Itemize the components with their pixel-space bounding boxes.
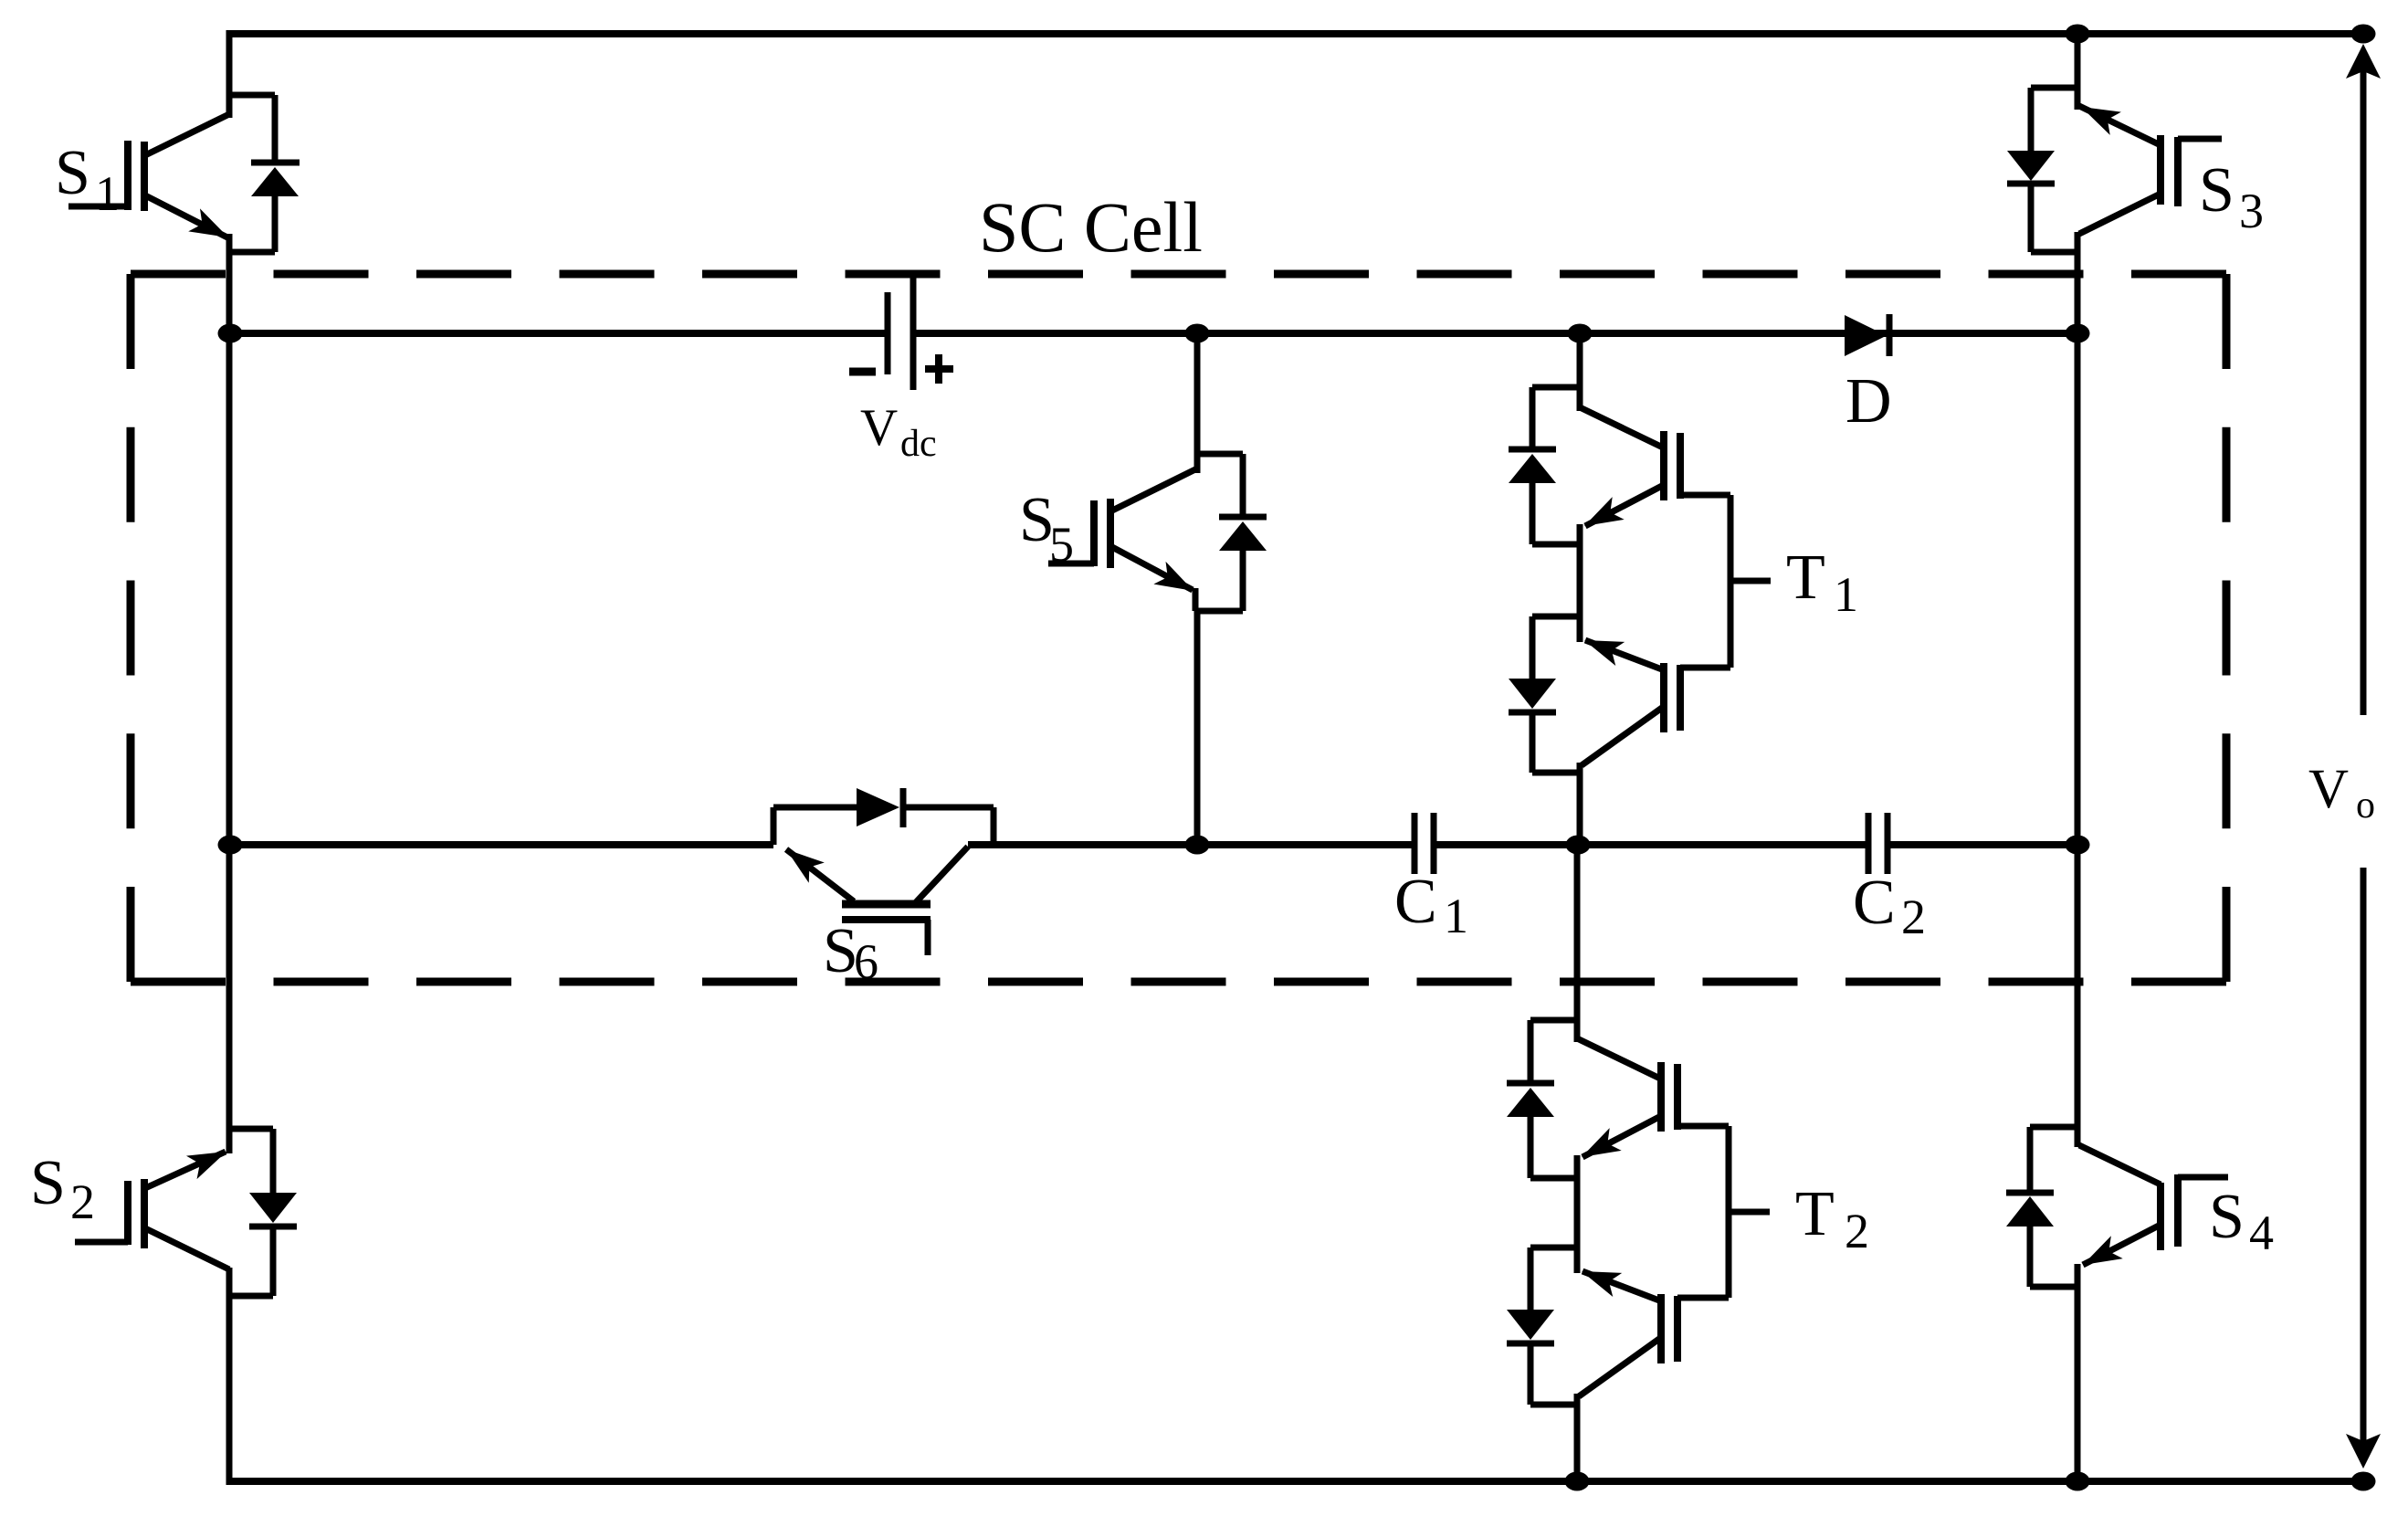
bidirectional switch T2 upper IGBT — [1530, 1017, 1577, 1024]
svg-text:C2: C2 — [1853, 868, 1926, 944]
svg-text:S4: S4 — [2209, 1182, 2274, 1260]
node Vdc rail / left column — [218, 324, 243, 343]
SC Cell boundary dashed bottom edge — [131, 978, 2226, 986]
wire T1 bottom to mid rail — [1532, 770, 1580, 776]
wire mid rail left segment — [229, 841, 773, 848]
diode of S6 (antiparallel, pointing right) — [857, 788, 899, 826]
wire bottom rail — [226, 1478, 2363, 1485]
svg-text:C1: C1 — [1394, 867, 1468, 943]
node Vdc rail / S3-S4 column — [2066, 324, 2090, 343]
transistor S1 — [229, 92, 275, 99]
node Vdc rail / T1 branch — [1568, 324, 1593, 343]
arrow Vo down — [2346, 1434, 2381, 1469]
diode of T1 upper IGBT — [1530, 387, 1536, 447]
wire mid rail right segment — [968, 841, 1414, 848]
bidirectional switch T1 lower IGBT — [1585, 640, 1662, 669]
wire S5 emitter to mid rail — [1194, 611, 1201, 845]
wire right column mid rail to S4 — [2075, 845, 2081, 1147]
plus sign of Vdc — [925, 365, 953, 373]
diode D — [1845, 315, 1887, 356]
node bottom rail / S4 column — [2066, 1472, 2090, 1491]
SC Cell boundary dashed left edge — [127, 274, 135, 982]
wire T1 mid junction — [1532, 542, 1580, 548]
diode of S1 (antiparallel) — [272, 95, 279, 161]
wire S5 collector from Vdc rail — [1194, 333, 1201, 473]
wire right column node to mid rail — [2075, 333, 2081, 845]
diode of T2 lower IGBT — [1528, 1248, 1534, 1310]
wire S1 collector to top rail — [226, 30, 233, 118]
node top rail / S3 column — [2066, 25, 2090, 44]
wire S2 collector to bottom rail — [226, 1292, 233, 1485]
diode of S3 (antiparallel) — [2028, 88, 2035, 151]
gate tie of T2 — [1726, 1126, 1732, 1298]
svg-text:Vdc: Vdc — [860, 399, 937, 465]
wire S1 emitter to Vdc node — [226, 234, 233, 333]
svg-text:S6: S6 — [823, 916, 878, 989]
transistor S5 — [1197, 451, 1243, 458]
wire T2 mid junction — [1530, 1175, 1577, 1182]
emitter arrow of S2 — [186, 1140, 232, 1179]
wire T2 bottom to bottom rail — [1530, 1402, 1577, 1408]
wire S4 emitter to bottom rail — [2075, 1264, 2081, 1485]
diode of S4 (antiparallel) — [2027, 1127, 2034, 1191]
svg-text:D: D — [1845, 366, 1892, 437]
node bottom rail / Vo line — [2351, 1472, 2376, 1491]
svg-text:SC Cell: SC Cell — [979, 187, 1203, 267]
node mid rail / T1-T2 column — [1566, 836, 1591, 855]
node bottom rail / T2 column — [1565, 1472, 1590, 1491]
capacitor C1 — [1412, 813, 1418, 874]
wire Vo measurement line upper — [2361, 55, 2367, 715]
SC Cell boundary dashed top edge — [131, 270, 2226, 279]
arrow Vo up — [2346, 44, 2381, 79]
node mid rail / S5 branch — [1185, 836, 1210, 855]
gate tie of T1 — [1728, 495, 1734, 668]
battery source Vdc — [885, 292, 891, 374]
wire Vdc rail left segment — [229, 330, 888, 337]
SC Cell boundary dashed right edge — [2223, 274, 2231, 982]
node Vdc rail / S5 branch — [1185, 324, 1210, 343]
diode of S2 (antiparallel) — [270, 1129, 277, 1193]
svg-text:S2: S2 — [30, 1148, 95, 1229]
node mid rail / S3-S4 column — [2066, 836, 2090, 855]
wire T1 top from Vdc rail — [1577, 333, 1583, 411]
emitter arrow of S4 — [2077, 1236, 2123, 1276]
minus sign of Vdc — [849, 368, 876, 376]
diode of T1 lower IGBT — [1530, 616, 1536, 679]
svg-text:T2: T2 — [1795, 1179, 1869, 1258]
capacitor C2 — [1866, 813, 1872, 874]
svg-text:Vo: Vo — [2308, 759, 2375, 826]
diode of T2 upper IGBT — [1528, 1020, 1534, 1081]
emitter arrow of S3 — [2076, 95, 2121, 134]
wire S3 emitter to top rail — [2075, 30, 2081, 110]
emitter arrow of T1 lower IGBT — [1580, 628, 1625, 666]
wire S3 collector to Vdc-rail node — [2075, 232, 2081, 333]
wire mid rail between C1 and C2 — [1434, 841, 1868, 848]
diode of S5 (antiparallel) — [1240, 454, 1246, 515]
transistor S2 — [229, 1126, 273, 1132]
svg-text:T1: T1 — [1786, 542, 1858, 622]
wire T2 top from mid rail — [1574, 845, 1581, 1042]
bidirectional switch T2 lower IGBT — [1583, 1271, 1659, 1300]
emitter arrow of S5 — [1153, 562, 1199, 602]
transistor S4 — [2030, 1124, 2077, 1131]
wire S1 emitter corner — [229, 249, 275, 256]
transistor S6 — [771, 807, 777, 845]
transistor S3 — [2031, 85, 2077, 91]
bidirectional switch T1 upper IGBT — [1532, 384, 1580, 391]
emitter arrow of T2 upper IGBT — [1576, 1128, 1622, 1168]
emitter arrow of T1 upper IGBT — [1579, 497, 1625, 537]
wire left column Vdc node to S2 — [226, 333, 233, 1132]
node top rail / Vo line — [2351, 25, 2376, 44]
svg-text:S5: S5 — [1019, 485, 1074, 572]
wire Vo measurement line lower — [2361, 868, 2367, 1448]
emitter arrow of S1 — [188, 208, 234, 248]
wire top rail — [226, 30, 2363, 37]
node mid rail / left column — [218, 836, 243, 855]
emitter arrow of T2 lower IGBT — [1577, 1259, 1622, 1297]
emitter arrow of S6 — [778, 839, 824, 883]
wire mid rail right end — [1887, 841, 2077, 848]
svg-text:S3: S3 — [2199, 155, 2264, 238]
wire Vdc rail right segment — [916, 330, 2077, 337]
